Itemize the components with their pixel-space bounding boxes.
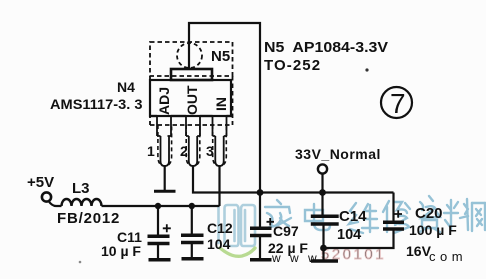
pin 2 stub <box>186 116 200 166</box>
33V_Normal terminal <box>318 164 327 173</box>
svg-text:L3: L3 <box>72 180 90 197</box>
svg-text:10 µ F: 10 µ F <box>101 243 141 259</box>
wire terminal to coil <box>49 201 62 206</box>
watermark left bracket stroke <box>217 206 220 243</box>
svg-text:104: 104 <box>207 236 231 252</box>
capacitor C12 <box>181 206 204 259</box>
watermark hanzi 维 <box>349 203 378 233</box>
circled 7 <box>381 87 412 118</box>
svg-text:104: 104 <box>337 227 361 243</box>
svg-text:C20: C20 <box>415 205 443 222</box>
svg-text:7: 7 <box>390 88 406 119</box>
capacitor C20 with wire from rail corner <box>324 193 405 249</box>
ground bar pin1 <box>154 190 176 193</box>
capacitor C14 <box>311 193 339 262</box>
pin 3 stub <box>213 116 227 166</box>
svg-text:C12: C12 <box>207 220 233 236</box>
regulator N4 body <box>150 80 231 116</box>
regulator N5 dashed body (TO-252 tab) <box>150 42 233 76</box>
pin 1 dashed outline <box>158 125 172 166</box>
node ground junction <box>320 245 327 252</box>
+5V rail <box>102 205 220 207</box>
C11 polarity plus <box>163 224 171 232</box>
watermark hanzi 电 <box>305 204 330 230</box>
svg-text:ADJ: ADJ <box>156 87 172 115</box>
watermark green swash <box>220 248 255 256</box>
watermark hanzi 资 <box>420 196 440 232</box>
svg-text:N5: N5 <box>211 48 230 65</box>
+5V terminal <box>42 192 51 201</box>
svg-text:C14: C14 <box>339 208 367 225</box>
watermark book logo <box>225 205 256 246</box>
svg-text:AMS1117-3. 3: AMS1117-3. 3 <box>50 96 143 112</box>
svg-text:16V: 16V <box>406 243 432 259</box>
node 33V junction <box>319 189 326 196</box>
regulator N5 dashed lower body sides <box>150 76 233 125</box>
svg-text:1: 1 <box>147 143 155 159</box>
svg-text:22 µ F: 22 µ F <box>268 240 308 256</box>
wire pin2 OUT rail <box>193 166 394 193</box>
svg-text:FB/2012: FB/2012 <box>57 210 120 227</box>
C97 polarity plus <box>267 218 275 226</box>
inductor L3 <box>62 199 102 206</box>
body bottom edge segments <box>150 115 231 117</box>
svg-text:IN: IN <box>213 97 229 111</box>
node C11 junction <box>155 203 161 209</box>
pin 2 dashed outline <box>186 125 200 166</box>
svg-text:2: 2 <box>180 143 188 159</box>
watermark hanzi 网 (clipped at edge) <box>472 203 485 231</box>
watermark hanzi 家 <box>265 200 291 228</box>
svg-text:N5 AP1084-3.3V: N5 AP1084-3.3V <box>264 39 388 56</box>
C20 polarity plus <box>395 210 403 218</box>
svg-text:C97: C97 <box>273 223 299 239</box>
svg-text:100 µ F: 100 µ F <box>409 222 457 238</box>
scan speck <box>365 68 368 71</box>
wire pin3 to +5V rail <box>218 166 220 206</box>
node C12 junction <box>189 203 195 209</box>
svg-text:+5V: +5V <box>27 174 54 191</box>
svg-text:N4: N4 <box>117 79 135 95</box>
wire pin1 to ground <box>164 166 166 190</box>
scan speck <box>79 261 82 264</box>
svg-text:3: 3 <box>206 143 214 159</box>
wire terminal to rail <box>321 174 323 193</box>
svg-text:com: com <box>429 249 467 264</box>
capacitor C11 <box>148 206 171 260</box>
regulator N5 dashed circle <box>177 43 202 68</box>
watermark hanzi 料 <box>444 199 468 230</box>
pin 1 stub <box>157 116 171 166</box>
svg-text:TO-252: TO-252 <box>264 57 321 74</box>
svg-text:33V_Normal: 33V_Normal <box>295 146 381 162</box>
capacitor C97 <box>250 193 272 260</box>
svg-text:OUT: OUT <box>184 85 200 115</box>
watermark hanzi 修 <box>383 201 410 233</box>
wire tab-to-out top route <box>189 23 260 190</box>
pin 3 dashed outline <box>213 125 227 166</box>
regulator N4 tab <box>171 69 212 80</box>
node OUT-C97 junction <box>257 189 264 196</box>
